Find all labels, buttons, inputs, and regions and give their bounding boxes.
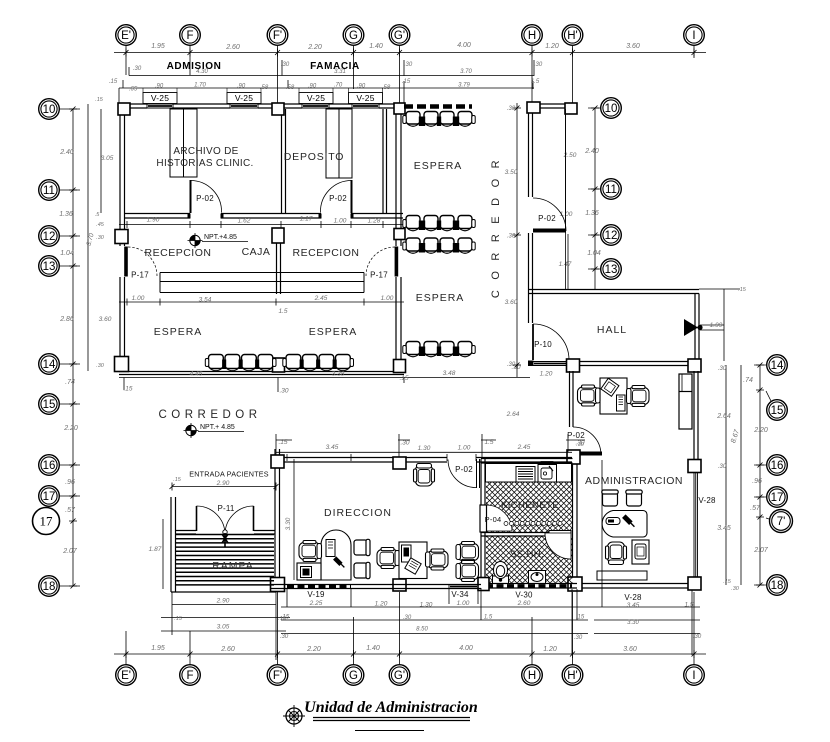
waiting chairs bottom row right xyxy=(286,355,301,369)
door P-17 left swing arc xyxy=(128,247,157,276)
svg-text:ADMISION: ADMISION xyxy=(167,61,222,72)
svg-text:P-02: P-02 xyxy=(196,194,214,203)
svg-text:P-11: P-11 xyxy=(217,504,234,513)
svg-text:.30: .30 xyxy=(96,235,105,241)
espera chairs row 3 xyxy=(406,342,420,355)
svg-text:1.00: 1.00 xyxy=(334,218,347,225)
door P-11 swing arcs xyxy=(197,506,254,535)
svg-text:3.60: 3.60 xyxy=(623,646,637,653)
corridor top column H xyxy=(527,102,540,113)
svg-text:1.04: 1.04 xyxy=(587,250,601,257)
svg-text:.30: .30 xyxy=(574,635,583,641)
espera chairs row 2a xyxy=(406,216,420,229)
window V-25 2 xyxy=(230,104,258,108)
svg-text:F: F xyxy=(186,670,193,682)
svg-text:3.50: 3.50 xyxy=(505,169,518,176)
door P-17 left leaf xyxy=(124,247,128,277)
corridor right wall upper xyxy=(529,110,533,197)
inner dim line left rooms xyxy=(88,104,101,371)
director side table xyxy=(297,563,321,580)
middle grid dimension line xyxy=(594,108,596,289)
secretary chair right xyxy=(627,386,650,407)
svg-text:1.17: 1.17 xyxy=(300,216,313,223)
svg-text:FAMACIA: FAMACIA xyxy=(310,61,360,72)
svg-text:.74: .74 xyxy=(743,377,753,384)
svg-text:ARCHIVO DE: ARCHIVO DE xyxy=(173,146,238,157)
door P-02 archivo leaf xyxy=(190,180,192,213)
svg-text:8.50: 8.50 xyxy=(416,627,428,633)
kichenete stove xyxy=(516,467,535,483)
corridor right wall mid xyxy=(529,233,533,323)
svg-text:1.28: 1.28 xyxy=(368,218,381,225)
interior wall C deposito right xyxy=(383,109,387,214)
svg-text:.30: .30 xyxy=(731,586,740,592)
svg-text:1.99: 1.99 xyxy=(710,322,723,329)
kichenete sink xyxy=(538,465,557,483)
svg-text:13: 13 xyxy=(605,264,618,276)
grid circle 17 big left xyxy=(33,508,60,535)
director desk xyxy=(321,530,351,580)
svg-text:.30: .30 xyxy=(400,440,409,447)
svg-text:2.90: 2.90 xyxy=(216,598,230,605)
direccion stacked chair 2 xyxy=(456,561,479,582)
svg-text:1.62: 1.62 xyxy=(238,218,251,225)
NPT marker recepcion xyxy=(188,233,249,248)
svg-text:4.00: 4.00 xyxy=(459,645,473,652)
espera chairs row 2b xyxy=(406,238,420,251)
svg-text:P-02: P-02 xyxy=(329,194,347,203)
svg-text:NPT.+4.85: NPT.+4.85 xyxy=(204,234,237,241)
sshh sink xyxy=(529,571,546,584)
svg-text:14: 14 xyxy=(43,359,56,371)
sshh bottom wall with dashed window V-30 xyxy=(481,584,577,589)
svg-text:NPT.+ 4.85: NPT.+ 4.85 xyxy=(200,424,235,431)
entrada dim line xyxy=(172,486,276,488)
svg-text:.45: .45 xyxy=(96,222,105,228)
window V-25 4 xyxy=(352,104,379,108)
svg-text:.58: .58 xyxy=(286,85,295,91)
svg-text:H': H' xyxy=(567,670,578,682)
svg-text:V-25: V-25 xyxy=(307,93,325,103)
svg-text:.74: .74 xyxy=(65,379,75,386)
svg-text:1.20: 1.20 xyxy=(543,646,557,653)
svg-text:2.20: 2.20 xyxy=(63,425,78,432)
sshh hatch floor xyxy=(486,537,573,584)
svg-text:.30: .30 xyxy=(507,362,516,368)
svg-text:V-25: V-25 xyxy=(151,93,169,103)
top grid dimension line xyxy=(114,52,706,54)
administracion guest chair 1 xyxy=(602,490,618,506)
svg-text:17: 17 xyxy=(771,492,784,504)
columns building1 top wall xyxy=(118,103,130,115)
dimension line building1 bottom xyxy=(119,378,530,393)
svg-text:2.60: 2.60 xyxy=(225,44,240,51)
NPT marker corridor xyxy=(184,423,245,438)
right inner dimension lines xyxy=(726,365,741,585)
ticks on recepcion dim lines xyxy=(127,221,396,306)
svg-text:G: G xyxy=(349,670,358,682)
svg-text:2.64: 2.64 xyxy=(716,413,731,420)
meeting office chair right xyxy=(426,549,449,570)
chair top center direccion xyxy=(414,464,435,487)
svg-text:CORREDOR: CORREDOR xyxy=(158,409,261,421)
administracion office chair xyxy=(606,542,627,565)
svg-text:3.54: 3.54 xyxy=(199,297,212,304)
svg-text:2.07: 2.07 xyxy=(753,547,769,554)
svg-text:1.90: 1.90 xyxy=(147,217,160,224)
svg-text:2.20: 2.20 xyxy=(753,427,768,434)
middle grid connector lines xyxy=(588,107,600,109)
svg-text:1.5: 1.5 xyxy=(484,615,493,621)
ramp top wall segments xyxy=(176,531,197,535)
secondary bottom dim lines xyxy=(281,620,700,634)
svg-text:.30: .30 xyxy=(718,366,727,372)
dim line above direccion wall xyxy=(276,451,572,453)
bottom grid connector ticks xyxy=(126,592,694,664)
ramp bottom edge xyxy=(171,591,276,593)
svg-text:2.60: 2.60 xyxy=(220,646,235,653)
svg-text:1.40: 1.40 xyxy=(366,645,380,652)
lower block bottom-left column xyxy=(478,578,489,591)
svg-text:3.70: 3.70 xyxy=(460,69,472,75)
svg-text:ESPERA: ESPERA xyxy=(416,292,465,304)
svg-text:RECEPCION: RECEPCION xyxy=(293,247,360,259)
exterior top wall with V-25 windows xyxy=(119,104,147,108)
svg-text:1.95: 1.95 xyxy=(151,645,165,652)
administracion bottom wall xyxy=(582,584,688,589)
kichenete counter xyxy=(486,464,572,483)
svg-text:V-28: V-28 xyxy=(624,593,642,602)
svg-text:10: 10 xyxy=(43,104,56,116)
svg-text:KICHENETE: KICHENETE xyxy=(501,500,559,511)
svg-text:3.05: 3.05 xyxy=(101,155,114,162)
svg-text:H: H xyxy=(528,30,536,42)
grid circles left xyxy=(39,99,60,120)
wall between kichenete and sshh xyxy=(481,533,549,537)
door P-02 archivo swing arc xyxy=(191,181,222,213)
administracion desk xyxy=(602,511,647,538)
svg-text:1.20: 1.20 xyxy=(375,601,388,608)
svg-text:2.60: 2.60 xyxy=(517,600,531,607)
svg-text:I: I xyxy=(692,670,695,682)
svg-text:.30: .30 xyxy=(718,464,727,470)
svg-text:.57: .57 xyxy=(750,505,761,512)
svg-text:1.00: 1.00 xyxy=(381,295,394,302)
svg-text:G': G' xyxy=(394,30,405,42)
svg-text:.15: .15 xyxy=(281,615,290,621)
dimension line below counter xyxy=(119,301,404,303)
ramp inner dim xyxy=(162,519,164,589)
svg-text:P-17: P-17 xyxy=(131,271,149,280)
svg-text:3.60: 3.60 xyxy=(626,43,640,50)
svg-text:.90: .90 xyxy=(237,84,246,90)
direccion columns xyxy=(271,455,284,468)
direccion guest chair 1 xyxy=(354,539,370,555)
svg-text:1.95: 1.95 xyxy=(151,43,165,50)
lower block left wall xyxy=(481,459,485,583)
svg-text:.15: .15 xyxy=(174,616,183,622)
direccion top wall xyxy=(271,458,447,463)
svg-text:.30: .30 xyxy=(281,62,290,68)
svg-text:7': 7' xyxy=(777,516,786,528)
svg-text:1.5: 1.5 xyxy=(684,602,693,609)
svg-text:3.38: 3.38 xyxy=(332,371,345,378)
grid circles top xyxy=(116,25,137,46)
svg-text:2.45: 2.45 xyxy=(517,444,531,451)
svg-text:2.20: 2.20 xyxy=(306,646,321,653)
svg-text:.90: .90 xyxy=(308,84,317,90)
svg-text:1.00: 1.00 xyxy=(458,445,471,452)
kichenete top wall xyxy=(481,459,573,464)
svg-text:.15: .15 xyxy=(109,79,118,85)
svg-text:18: 18 xyxy=(43,581,56,593)
svg-text:V-25: V-25 xyxy=(235,93,253,103)
door P-02 direccion leaf xyxy=(477,459,480,488)
svg-text:12: 12 xyxy=(43,231,56,243)
svg-text:ESPERA: ESPERA xyxy=(414,160,463,172)
svg-text:2.50: 2.50 xyxy=(563,152,577,159)
svg-text:.15: .15 xyxy=(123,386,132,393)
kichenete hatch floor xyxy=(486,482,573,532)
title sub line xyxy=(355,730,424,732)
secretary right wall xyxy=(694,371,698,460)
top grid extension lines xyxy=(126,46,694,103)
meeting computer desk xyxy=(399,542,427,579)
svg-text:P-02: P-02 xyxy=(538,214,556,223)
svg-text:G: G xyxy=(349,30,358,42)
svg-text:3.45: 3.45 xyxy=(326,444,339,451)
door P-17 right leaf xyxy=(395,247,399,277)
svg-text:V-25: V-25 xyxy=(356,93,374,103)
svg-text:ESPERA: ESPERA xyxy=(309,326,358,338)
svg-text:2.86: 2.86 xyxy=(59,316,74,323)
door jamb blocks wall A xyxy=(188,214,191,219)
window V-25 1 xyxy=(147,104,173,108)
svg-text:G': G' xyxy=(394,670,405,682)
svg-text:1.00: 1.00 xyxy=(457,600,470,607)
svg-text:.90: .90 xyxy=(357,84,366,90)
secondary top dimension lines xyxy=(119,60,534,104)
bottom grid dimension line xyxy=(114,653,706,655)
ramp left wall xyxy=(171,497,176,592)
svg-text:2.40: 2.40 xyxy=(584,148,599,155)
svg-text:18: 18 xyxy=(771,580,784,592)
svg-text:11: 11 xyxy=(605,184,617,196)
svg-text:H': H' xyxy=(567,30,578,42)
hall entry arrow xyxy=(684,319,698,336)
svg-text:.30: .30 xyxy=(96,363,105,369)
svg-text:.30: .30 xyxy=(133,66,142,72)
meeting office chair left xyxy=(377,548,400,569)
door P-04 sshh swing xyxy=(545,533,571,559)
door P-02 corridor swing arc xyxy=(533,198,566,231)
svg-text:.96: .96 xyxy=(65,479,75,486)
left exterior wall xyxy=(120,104,125,246)
grid circles bottom xyxy=(116,665,137,686)
svg-text:1.36: 1.36 xyxy=(59,211,73,218)
svg-text:.30: .30 xyxy=(507,106,516,112)
svg-text:F': F' xyxy=(273,670,282,682)
svg-text:CORREDOR: CORREDOR xyxy=(490,150,502,298)
direccion guest chair 2 xyxy=(354,562,370,578)
svg-text:.30: .30 xyxy=(507,234,516,240)
svg-text:1.20: 1.20 xyxy=(540,371,553,378)
svg-text:.57: .57 xyxy=(65,507,76,514)
svg-text:RECEPCION: RECEPCION xyxy=(145,247,212,259)
right building right wall thin xyxy=(566,109,569,289)
svg-text:.15: .15 xyxy=(173,477,182,483)
svg-text:HISTORIAS CLINIC.: HISTORIAS CLINIC. xyxy=(156,158,253,169)
grid circles right xyxy=(767,355,788,376)
svg-text:2.64: 2.64 xyxy=(506,411,520,418)
reception counter xyxy=(160,273,364,293)
dimension line below wall A xyxy=(119,224,404,226)
interior wall B archivo/deposito xyxy=(282,109,286,214)
grid circle 7' right xyxy=(770,510,793,533)
caja partition wall xyxy=(277,243,281,294)
window label boxes V-25 xyxy=(143,93,177,104)
svg-text:.15: .15 xyxy=(399,375,408,382)
svg-text:2.25: 2.25 xyxy=(309,600,323,607)
direccion left wall xyxy=(275,449,280,592)
svg-text:3.60: 3.60 xyxy=(99,316,112,323)
hall window sill xyxy=(533,362,569,366)
svg-text:V-28: V-28 xyxy=(698,496,716,505)
hall bottom wall with window xyxy=(569,362,700,366)
svg-text:ESPERA: ESPERA xyxy=(154,326,203,338)
svg-text:4.00: 4.00 xyxy=(457,42,471,49)
administracion printer table xyxy=(632,540,649,564)
svg-text:3.45: 3.45 xyxy=(627,602,640,609)
svg-text:.30: .30 xyxy=(280,634,289,640)
svg-text:V-30: V-30 xyxy=(515,591,533,600)
svg-text:14: 14 xyxy=(771,360,784,372)
svg-text:RAMPA: RAMPA xyxy=(212,560,254,572)
direccion top-right wall segment xyxy=(476,458,572,463)
svg-text:.58: .58 xyxy=(382,85,391,91)
svg-text:1.5: 1.5 xyxy=(278,308,287,315)
svg-text:CAJA: CAJA xyxy=(242,246,271,258)
administracion right wall with V-28 window xyxy=(694,469,698,578)
administracion guest chair 2 xyxy=(626,490,642,506)
direccion bottom wall xyxy=(271,585,481,589)
hall right dim line xyxy=(699,289,740,361)
svg-text:P-17: P-17 xyxy=(370,271,388,280)
right building top wall xyxy=(540,104,573,108)
svg-text:DEPOSITO: DEPOSITO xyxy=(284,151,344,163)
door P-02 corridor leaf xyxy=(533,229,566,233)
svg-text:.30: .30 xyxy=(693,634,702,640)
bottom wall building1 xyxy=(119,372,404,375)
svg-text:12: 12 xyxy=(605,230,618,242)
svg-text:.96: .96 xyxy=(752,478,762,485)
door P-10 swing arc xyxy=(533,324,569,360)
shelf deposito xyxy=(326,109,352,178)
direccion stacked chair 1 xyxy=(456,542,479,563)
svg-text:3.30: 3.30 xyxy=(627,620,639,626)
svg-text:17: 17 xyxy=(40,514,54,529)
left grid connector lines xyxy=(60,108,80,110)
svg-text:F: F xyxy=(186,30,193,42)
svg-text:2.40: 2.40 xyxy=(59,149,74,156)
svg-text:1.30: 1.30 xyxy=(418,445,431,452)
lower window labels dimension band xyxy=(281,460,700,655)
title underline xyxy=(313,718,470,721)
svg-text:ENTRADA PACIENTES: ENTRADA PACIENTES xyxy=(189,470,269,479)
columns building1 left wall xyxy=(115,230,128,244)
window V-25 3 xyxy=(302,104,329,108)
corridor inner dimension line xyxy=(516,103,518,377)
svg-text:.65: .65 xyxy=(129,87,138,93)
svg-text:HALL: HALL xyxy=(597,324,627,336)
svg-text:4.45: 4.45 xyxy=(190,371,203,378)
espera-top left wall xyxy=(396,104,401,246)
piers recepcion band xyxy=(272,228,284,243)
svg-text:.70: .70 xyxy=(334,83,343,89)
door P-02 deposito swing arc xyxy=(320,181,351,213)
svg-text:P-02: P-02 xyxy=(455,465,473,474)
svg-text:P-10: P-10 xyxy=(534,340,552,349)
svg-text:.30: .30 xyxy=(534,62,543,68)
svg-text:15: 15 xyxy=(43,399,56,411)
title symbol xyxy=(283,705,305,727)
director office chair xyxy=(299,541,322,562)
right grid dimension line xyxy=(759,365,761,585)
svg-text:E': E' xyxy=(121,30,131,42)
svg-text:P-04: P-04 xyxy=(485,515,502,524)
grid circles middle right xyxy=(601,98,622,119)
svg-text:.30: .30 xyxy=(404,62,413,68)
door P-11 double leaves xyxy=(197,506,254,531)
interior wall A horizontal xyxy=(125,214,190,219)
svg-text:2.07: 2.07 xyxy=(62,548,78,555)
dashed opening line top of espera xyxy=(404,104,472,109)
door P-02 secretary swing arc xyxy=(573,427,601,455)
svg-text:1.70: 1.70 xyxy=(194,83,206,89)
svg-text:3.79: 3.79 xyxy=(458,83,470,89)
administracion side table xyxy=(597,571,647,580)
small room right wall line xyxy=(565,109,567,231)
secretary chair left xyxy=(578,385,601,406)
svg-text:17: 17 xyxy=(43,491,56,503)
svg-text:1.87: 1.87 xyxy=(149,546,162,553)
ramp stripes xyxy=(176,535,274,585)
svg-text:1.04: 1.04 xyxy=(60,250,74,257)
svg-text:3.60: 3.60 xyxy=(505,299,518,306)
svg-text:2.90: 2.90 xyxy=(216,480,230,487)
svg-text:3.30: 3.30 xyxy=(285,517,292,530)
sshh toilet xyxy=(493,562,509,584)
svg-text:V-19: V-19 xyxy=(307,590,325,599)
administracion left wall (shared with sshh) xyxy=(573,459,578,583)
right grid connector lines xyxy=(754,364,766,366)
svg-text:.15: .15 xyxy=(738,287,747,293)
svg-text:1.00: 1.00 xyxy=(132,295,145,302)
svg-text:1.36: 1.36 xyxy=(585,210,599,217)
svg-text:15: 15 xyxy=(771,405,784,417)
waiting chairs bottom row left xyxy=(209,355,224,369)
svg-text:ADMINISTRACION: ADMINISTRACION xyxy=(585,475,683,487)
svg-text:3.45: 3.45 xyxy=(717,525,731,532)
svg-text:13: 13 xyxy=(43,261,56,273)
svg-text:V-34: V-34 xyxy=(451,590,469,599)
svg-text:.15: .15 xyxy=(576,615,585,621)
kichenete dotted strip xyxy=(504,522,508,526)
svg-text:16: 16 xyxy=(771,460,784,472)
door P-04 kichenete swing xyxy=(486,505,512,531)
svg-text:.30: .30 xyxy=(575,440,584,447)
hall top wall xyxy=(528,290,699,294)
